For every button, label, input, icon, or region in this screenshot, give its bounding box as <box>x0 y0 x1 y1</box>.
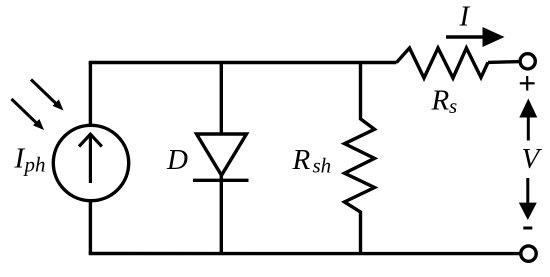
svg-text:ph: ph <box>23 153 46 177</box>
plus sign <box>520 76 535 91</box>
wire: left vertical rail <box>89 63 92 254</box>
wire: Rs to + terminal <box>488 60 520 64</box>
svg-text:R: R <box>292 144 311 176</box>
wire: diode branch vertical <box>220 63 223 254</box>
minus sign <box>523 227 532 230</box>
photon arrow 2 <box>12 99 45 130</box>
wire: top rail from left corner to Rs <box>90 63 396 65</box>
V down arrow <box>519 178 537 220</box>
label Iph <box>14 143 46 177</box>
svg-text:R: R <box>431 85 450 117</box>
node + terminal circle <box>520 54 535 69</box>
diode D1 triangle (anode) <box>197 134 247 175</box>
photon arrow 1 <box>31 80 64 111</box>
label Rs <box>431 85 458 118</box>
label Rsh <box>292 144 332 178</box>
current arrow I <box>446 27 505 47</box>
svg-text:s: s <box>449 94 457 118</box>
svg-text:sh: sh <box>313 154 332 178</box>
V up arrow <box>519 99 537 141</box>
resistor Rs (series) zigzag <box>397 48 489 78</box>
svg-text:D: D <box>166 144 188 176</box>
svg-text:I: I <box>459 1 471 33</box>
node - terminal circle <box>521 246 536 261</box>
diode D1 cathode bar <box>193 179 249 182</box>
wire: bottom rail <box>90 252 519 254</box>
resistor Rsh (shunt) zigzag with leads <box>345 63 375 254</box>
svg-text:V: V <box>522 143 543 175</box>
current source arrow (Iph direction) <box>79 134 102 183</box>
current source U1 circle <box>53 125 128 200</box>
